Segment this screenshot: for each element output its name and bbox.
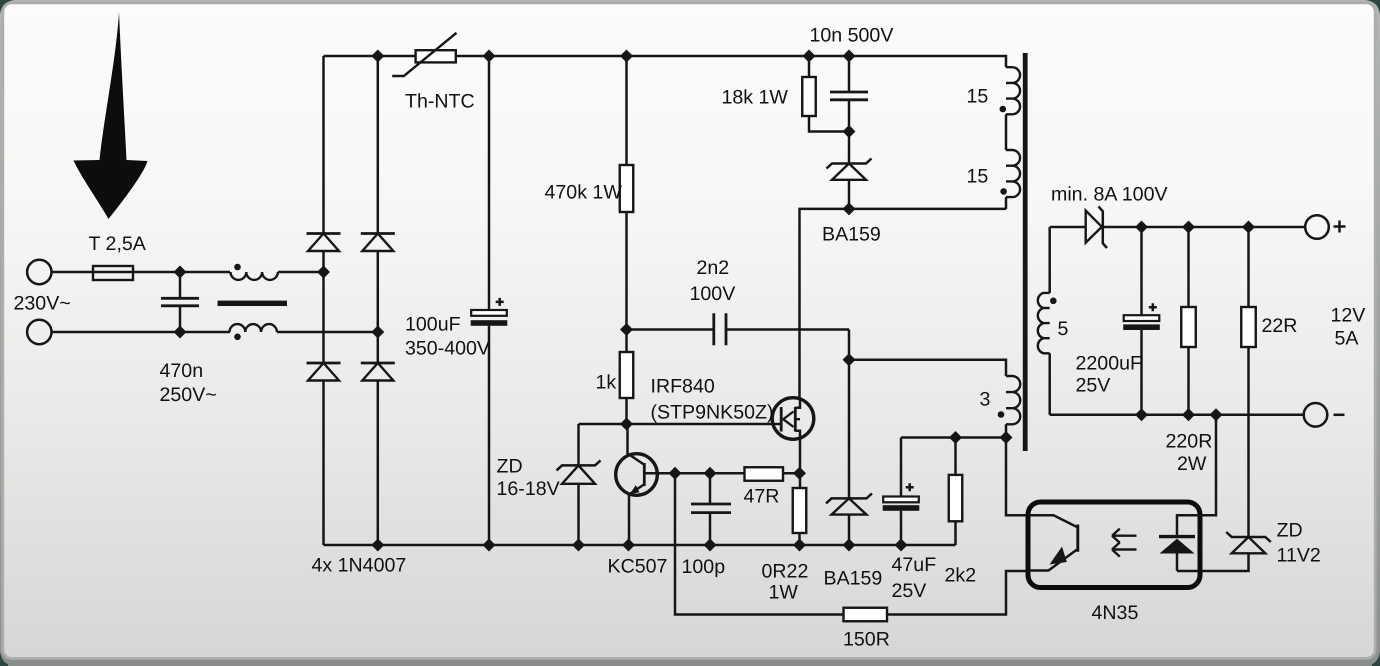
svg-text:2k2: 2k2 — [945, 565, 977, 587]
svg-text:IRF840: IRF840 — [651, 376, 715, 398]
svg-text:230V~: 230V~ — [14, 293, 71, 315]
svg-text:15: 15 — [967, 86, 989, 108]
svg-text:47uF: 47uF — [892, 554, 937, 576]
svg-text:100uF: 100uF — [405, 314, 461, 336]
svg-text:470n: 470n — [160, 360, 204, 382]
svg-text:15: 15 — [967, 166, 989, 188]
svg-text:2200uF: 2200uF — [1076, 353, 1142, 375]
svg-text:11V2: 11V2 — [1277, 545, 1321, 567]
svg-text:12V: 12V — [1331, 305, 1366, 327]
svg-text:25V: 25V — [892, 580, 927, 602]
svg-text:ZD: ZD — [497, 456, 523, 478]
svg-text:BA159: BA159 — [824, 568, 883, 590]
svg-text:Th-NTC: Th-NTC — [405, 91, 475, 113]
svg-text:220R: 220R — [1166, 431, 1213, 453]
svg-text:T 2,5A: T 2,5A — [89, 233, 147, 255]
svg-text:4N35: 4N35 — [1092, 602, 1139, 624]
svg-text:470k 1W: 470k 1W — [545, 182, 623, 204]
svg-text:2W: 2W — [1177, 453, 1207, 475]
svg-text:1k: 1k — [596, 372, 617, 394]
svg-text:350-400V: 350-400V — [405, 338, 490, 360]
svg-text:25V: 25V — [1076, 375, 1111, 397]
svg-text:(STP9NK50Z): (STP9NK50Z) — [651, 402, 774, 424]
svg-text:2n2: 2n2 — [697, 257, 730, 279]
svg-text:5: 5 — [1058, 318, 1069, 340]
svg-text:18k 1W: 18k 1W — [722, 87, 789, 109]
svg-text:22R: 22R — [1262, 315, 1298, 337]
svg-text:min. 8A 100V: min. 8A 100V — [1051, 184, 1168, 206]
svg-text:KC507: KC507 — [608, 556, 668, 578]
svg-text:0R22: 0R22 — [762, 561, 809, 583]
svg-text:47R: 47R — [744, 486, 780, 508]
svg-text:3: 3 — [980, 389, 991, 411]
svg-text:BA159: BA159 — [822, 224, 881, 246]
svg-text:250V~: 250V~ — [160, 384, 217, 406]
svg-text:150R: 150R — [843, 629, 890, 651]
svg-text:100V: 100V — [690, 283, 736, 305]
svg-text:10n 500V: 10n 500V — [810, 25, 894, 47]
svg-text:4x 1N4007: 4x 1N4007 — [312, 555, 407, 577]
svg-text:16-18V: 16-18V — [497, 478, 560, 500]
svg-text:1W: 1W — [769, 582, 799, 604]
svg-text:ZD: ZD — [1277, 520, 1303, 542]
svg-text:100p: 100p — [682, 556, 726, 578]
svg-text:5A: 5A — [1335, 328, 1360, 350]
